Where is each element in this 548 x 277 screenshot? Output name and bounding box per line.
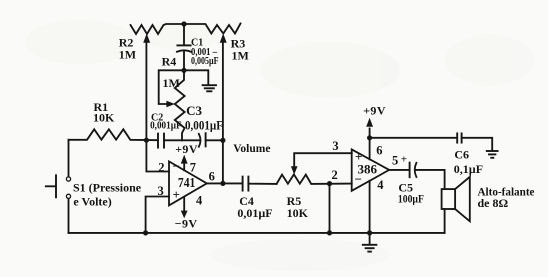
svg-text:0,001µF: 0,001µF: [185, 117, 223, 132]
svg-text:de 8Ω: de 8Ω: [478, 196, 509, 210]
svg-text:+9V: +9V: [363, 104, 386, 118]
svg-text:S1 (Pressione: S1 (Pressione: [73, 181, 142, 195]
svg-text:C3: C3: [186, 103, 202, 118]
svg-text:2: 2: [332, 168, 338, 182]
svg-text:6: 6: [376, 143, 382, 157]
svg-text:R4: R4: [162, 54, 177, 68]
svg-text:100µF: 100µF: [398, 193, 424, 205]
svg-text:4: 4: [196, 193, 203, 207]
svg-text:1M: 1M: [119, 48, 136, 62]
svg-text:7: 7: [190, 161, 196, 175]
svg-text:1M: 1M: [163, 76, 180, 90]
svg-text:4: 4: [377, 178, 384, 192]
svg-text:3: 3: [158, 184, 164, 198]
svg-text:0,01µF: 0,01µF: [237, 206, 272, 220]
svg-text:0,001µF: 0,001µF: [150, 121, 182, 132]
svg-text:−: −: [173, 159, 180, 174]
svg-text:10K: 10K: [93, 111, 115, 125]
svg-text:+9V: +9V: [175, 142, 198, 156]
svg-text:+: +: [355, 149, 362, 164]
svg-text:−: −: [355, 172, 362, 187]
svg-text:5: 5: [392, 153, 398, 167]
svg-text:Volume: Volume: [233, 143, 270, 155]
svg-text:C6: C6: [454, 148, 469, 162]
svg-text:3: 3: [332, 139, 338, 153]
svg-text:0,005µF: 0,005µF: [191, 56, 219, 67]
svg-text:741: 741: [178, 175, 196, 190]
svg-text:6: 6: [209, 169, 215, 183]
svg-text:+: +: [173, 187, 180, 202]
svg-text:2: 2: [158, 160, 164, 174]
svg-text:10K: 10K: [287, 206, 309, 220]
svg-text:0,1µF: 0,1µF: [454, 162, 483, 176]
svg-text:+: +: [401, 154, 407, 166]
svg-text:e Volte): e Volte): [73, 195, 111, 209]
svg-text:1M: 1M: [232, 48, 249, 62]
svg-text:−9V: −9V: [175, 216, 198, 230]
